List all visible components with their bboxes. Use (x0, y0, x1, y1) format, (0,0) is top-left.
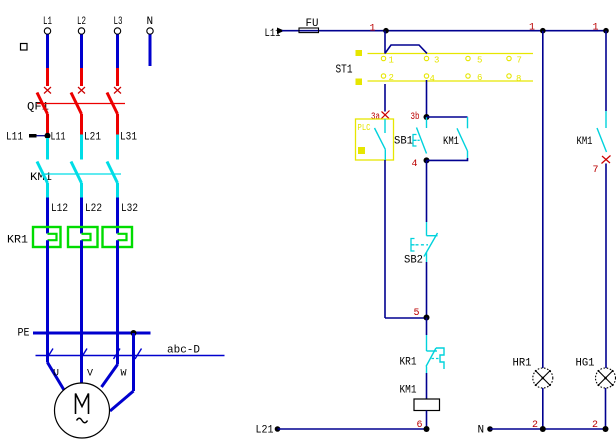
KR1 contact blade (426, 348, 436, 367)
svg-text:L32: L32 (121, 203, 138, 215)
lamp HG1 label (576, 358, 595, 370)
wire KM1 right to HG1 (605, 164, 607, 369)
wire L2 blue segment (80, 35, 83, 69)
KR1 contact stub top (426, 335, 428, 351)
wire stub to L11 (37, 135, 48, 137)
breaker QF1 pole 1 blade (37, 93, 48, 115)
svg-text:abc-D: abc-D (167, 345, 200, 357)
lamp HG1 (596, 368, 616, 388)
junction node 1 c (603, 28, 609, 34)
button SB1 blade (417, 128, 427, 154)
wire L3 blue segment (116, 35, 119, 69)
wire phase3 to motor (102, 240, 118, 387)
terminal V label (87, 369, 93, 380)
wire KM1 pole2 lower cyan (80, 183, 83, 198)
node 1 label c (593, 23, 599, 34)
X mark pole 3 (114, 87, 121, 94)
wire QF1 pole2 lower (80, 114, 83, 135)
net abc-D line (36, 355, 225, 357)
svg-text:1: 1 (529, 23, 535, 34)
svg-text:N: N (147, 16, 154, 28)
wire PE branch to motor (110, 333, 134, 411)
node 2 label b (592, 420, 598, 431)
node L21 dot (275, 426, 281, 432)
svg-text:KR1: KR1 (400, 357, 417, 369)
node 4 label (412, 159, 418, 170)
wire HG1 to N (605, 388, 607, 429)
X mark node 7 (602, 156, 611, 164)
node 5 label (414, 308, 420, 319)
node L11 right label (51, 132, 66, 144)
wire L11 cyan segment (46, 138, 49, 160)
wire KM1 pole3 lower cyan (116, 183, 119, 198)
junction node 5 (424, 315, 430, 321)
motor M1 circle (55, 383, 110, 438)
node L21 label (84, 132, 101, 144)
X mark node 3a (381, 111, 390, 120)
breaker QF1 label (27, 102, 49, 114)
breaker QF1 linkage (37, 103, 125, 105)
terminal circle L3 (114, 28, 120, 34)
KM1 aux stub top (467, 117, 469, 128)
ST1 terminal 6 (466, 73, 483, 83)
ST1 terminal 3 (424, 56, 439, 66)
ST1 terminal 4 (424, 74, 435, 84)
wire ST1 terminal4 down (426, 80, 428, 117)
motor M letter (76, 394, 89, 415)
node 1 label b (529, 23, 535, 34)
PLC contact stub top (384, 119, 386, 133)
svg-text:2: 2 (532, 420, 538, 431)
button SB2 stop bar (427, 235, 438, 237)
svg-text:3a: 3a (371, 112, 380, 123)
wire PLC to node 5 (384, 160, 386, 318)
slash mark wire1 (47, 349, 54, 360)
wire L1 red segment (46, 68, 49, 86)
wire phase2 to motor (80, 240, 83, 384)
wire ST1 terminal2 down (384, 84, 386, 112)
node N label (147, 16, 154, 28)
svg-text:KM1: KM1 (577, 136, 593, 148)
junction L11 (45, 133, 51, 139)
svg-text:SB2: SB2 (404, 255, 423, 267)
node L12 label (51, 203, 68, 215)
ST1 terminal 7 (507, 56, 522, 66)
node L31 label (120, 132, 137, 144)
slash mark wire2 (81, 349, 88, 360)
control top rail (282, 30, 606, 32)
lamp HR1 (533, 368, 553, 388)
svg-text:1: 1 (593, 23, 599, 34)
KM1 aux branch bottom wire (427, 158, 468, 160)
contactor KM1 pole 1 blade (37, 162, 48, 184)
node N dot (487, 426, 493, 432)
terminal U label (53, 369, 59, 380)
wire KM1 pole1 lower cyan (46, 183, 49, 198)
svg-text:L12: L12 (51, 203, 68, 215)
wire L2 red segment (80, 68, 83, 86)
node L11 arrow marker (277, 28, 285, 35)
KR1 contact stop bar (427, 350, 438, 352)
svg-text:HG1: HG1 (576, 358, 595, 370)
junction node 6 (424, 426, 430, 432)
node L11 feed label (265, 28, 281, 40)
svg-text:HR1: HR1 (513, 358, 532, 370)
junction node 2 a (540, 426, 546, 432)
wire N stub (149, 35, 152, 67)
wire rail to HR1 (542, 31, 544, 368)
KM1 right contact label (577, 136, 593, 148)
svg-text:L11: L11 (6, 132, 23, 144)
wire QF1 pole1 lower (46, 114, 49, 134)
terminal circle N (147, 28, 153, 34)
svg-text:6: 6 (417, 420, 423, 431)
KM1 aux blade (457, 128, 468, 151)
button SB1 stub top (426, 117, 428, 128)
svg-text:1: 1 (389, 56, 394, 66)
wire rail to KM1 right (605, 31, 607, 111)
node L11 left label (6, 132, 23, 144)
svg-text:7: 7 (517, 56, 522, 66)
wire L21 cyan segment (80, 135, 83, 160)
wire L31 cyan segment (116, 135, 119, 160)
node L11 stub (29, 134, 37, 138)
wire L32 navy segment (116, 198, 119, 234)
node 7 label (593, 165, 599, 176)
PLC box (356, 119, 394, 160)
wire L22 navy segment (80, 198, 83, 234)
node L32 label (121, 203, 138, 215)
PLC contact stub bottom (384, 149, 386, 160)
slash mark wire4 (135, 349, 142, 360)
svg-text:L21: L21 (84, 132, 101, 144)
KR1 thermal actuator (432, 348, 445, 369)
selector ST1 row marker top (356, 50, 363, 56)
junction PE (131, 330, 137, 336)
terminal circle L1 (44, 28, 50, 34)
ST1 terminal 1 (381, 56, 394, 66)
X mark pole 2 (78, 87, 85, 94)
contactor KM1 pole 3 blade (107, 162, 118, 184)
svg-text:U: U (53, 369, 59, 380)
node L3 label (114, 16, 123, 28)
relay KR1 heater box 1 (33, 227, 61, 247)
button SB2 stub top (426, 222, 428, 236)
small square marker (21, 44, 28, 51)
wire KR1 to coil (426, 373, 428, 399)
relay KR1 label (7, 235, 28, 247)
svg-text:L2: L2 (77, 16, 86, 28)
svg-text:3b: 3b (411, 111, 420, 123)
node L2 label (77, 16, 86, 28)
ST1 bridge link 1-3 (385, 45, 427, 53)
contactor KM1 label (30, 172, 52, 184)
node 6 label (417, 420, 423, 431)
svg-text:5: 5 (414, 308, 420, 319)
KR1 contact stub bottom (426, 367, 428, 374)
node L22 label (85, 203, 102, 215)
svg-text:7: 7 (593, 165, 599, 176)
svg-text:L3: L3 (114, 16, 123, 28)
relay KR1 heater box 2 (68, 227, 98, 247)
wire SB2 to node5 (426, 262, 428, 318)
terminal circle L2 (78, 28, 84, 34)
junction node 2 b (603, 426, 609, 432)
breaker QF1 pole 2 blade (71, 93, 82, 115)
svg-text:L31: L31 (120, 132, 137, 144)
button SB2 label (404, 255, 423, 267)
wire L12 navy segment (46, 198, 49, 234)
KM1 aux label (443, 136, 459, 148)
relay KR1 heater box 3 (103, 227, 133, 247)
node 3a label (371, 112, 380, 123)
coil KM1 (414, 399, 440, 411)
svg-text:L21: L21 (256, 425, 274, 437)
wire node5 to KR1 (426, 318, 428, 336)
svg-text:PE: PE (18, 328, 30, 340)
button SB1 actuator (413, 135, 422, 147)
svg-text:2: 2 (592, 420, 598, 431)
PE bus (33, 332, 151, 335)
svg-text:L22: L22 (85, 203, 102, 215)
svg-text:SB1: SB1 (394, 136, 413, 148)
svg-text:L1: L1 (43, 16, 52, 28)
svg-text:1: 1 (370, 24, 376, 35)
junction node 1 a (383, 28, 389, 34)
svg-text:KM1: KM1 (443, 136, 459, 148)
slash mark wire3 (114, 349, 121, 360)
svg-text:6: 6 (477, 73, 482, 83)
PLC marker glyph (358, 147, 365, 154)
button SB2 stub bottom (426, 252, 428, 262)
button SB2 blade (424, 233, 438, 257)
wire node5 horizontal (385, 317, 427, 319)
button SB1 label (394, 136, 413, 148)
X mark pole 1 (44, 87, 51, 94)
wire L3 red segment (116, 68, 119, 86)
junction node 3b (424, 114, 430, 120)
wire coil to node6 (426, 411, 428, 430)
svg-text:4: 4 (412, 159, 418, 170)
L21 rail (278, 428, 427, 430)
KM1 aux branch top wire (427, 116, 468, 118)
junction node 4 (424, 157, 430, 163)
wire rail to ST1 terminal 1 (384, 31, 386, 54)
N rail (490, 428, 606, 430)
svg-text:2: 2 (389, 73, 394, 83)
svg-text:4: 4 (430, 74, 435, 84)
wire node4 to SB2 (426, 160, 428, 222)
node N label (478, 425, 485, 437)
contactor KM1 linkage (42, 173, 121, 175)
fuse FU label (306, 18, 319, 30)
wire HR1 to N (542, 388, 544, 429)
ST1 terminal 8 (507, 74, 522, 84)
net abc-D label (167, 345, 200, 357)
selector ST1 row marker bottom (356, 79, 363, 86)
relay contact KR1 label (400, 357, 417, 369)
svg-text:8: 8 (516, 74, 521, 84)
svg-text:N: N (478, 425, 485, 437)
contactor KM1 pole 2 blade (71, 162, 82, 184)
node L21 label (256, 425, 274, 437)
svg-text:W: W (121, 369, 127, 380)
svg-text:ST1: ST1 (336, 63, 353, 77)
ST1 terminal 2 (381, 73, 394, 83)
KM1 right blade (597, 128, 607, 152)
node 1 label a (370, 24, 376, 35)
button SB2 actuator (411, 239, 428, 252)
selector ST1 label (336, 63, 353, 77)
selector ST1 bottom row line (368, 80, 534, 82)
svg-text:KR1: KR1 (7, 235, 28, 247)
ST1 terminal 5 (466, 56, 483, 66)
fuse FU (299, 28, 319, 33)
KM1 right stub top (605, 111, 607, 128)
KM1 aux stub bottom (467, 151, 469, 158)
wire L1 blue segment (46, 35, 49, 69)
svg-text:V: V (87, 369, 93, 380)
lamp HR1 label (513, 358, 532, 370)
svg-text:3: 3 (434, 56, 439, 66)
breaker QF1 pole 3 blade (107, 93, 118, 115)
node 3b label (411, 111, 420, 123)
selector ST1 top row line (368, 53, 534, 55)
motor tilde (77, 418, 88, 423)
wire phase1 to motor (48, 240, 65, 390)
PLC label (358, 123, 371, 133)
wire QF1 pole3 lower (116, 114, 119, 135)
junction node 1 b (540, 28, 546, 34)
svg-text:PLC: PLC (358, 123, 371, 133)
node L1 label (43, 16, 52, 28)
node 2 label a (532, 420, 538, 431)
coil KM1 label (400, 385, 417, 397)
svg-text:L11: L11 (51, 132, 66, 144)
svg-text:5: 5 (477, 56, 482, 66)
PE label (18, 328, 30, 340)
PLC contact blade (375, 128, 386, 149)
svg-text:KM1: KM1 (400, 385, 417, 397)
terminal W label (121, 369, 127, 380)
